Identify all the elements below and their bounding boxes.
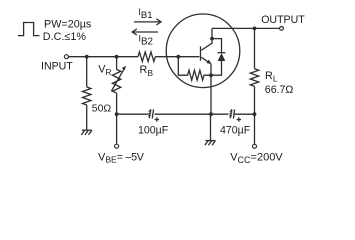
wire RL to rail [254, 86, 256, 114]
current arrow IB2 [132, 29, 158, 35]
node rail-RL junction [253, 112, 257, 116]
bottom rail wire [117, 113, 255, 115]
svg-text:RL: RL [265, 70, 278, 84]
svg-text:OUTPUT: OUTPUT [261, 14, 305, 26]
ground below 50ohm [81, 130, 92, 135]
svg-text:66.7Ω: 66.7Ω [265, 84, 294, 96]
transistor Q1 base bar [200, 46, 202, 60]
current arrow IB1 [134, 19, 161, 25]
collector lead [202, 28, 213, 50]
svg-text:470µF: 470µF [220, 125, 251, 137]
node emitter junction [209, 73, 213, 77]
node VR branch [115, 55, 119, 59]
node emitter-rail junction [209, 112, 213, 116]
node base junction [176, 55, 180, 59]
wire VR to bottom rail [116, 93, 118, 114]
node rail-VR junction [115, 112, 119, 116]
svg-text:RB: RB [140, 64, 154, 78]
transistor circle U1 [166, 14, 240, 88]
node RL-output junction [253, 27, 257, 31]
emitter wire down to rail [210, 75, 212, 114]
wire VCC stub [254, 114, 256, 144]
wire RB to base [155, 56, 199, 58]
wire VBE stub [116, 114, 118, 144]
internal base-emitter resistor [178, 57, 211, 80]
variable resistor VR [112, 70, 120, 94]
svg-text:IB1: IB1 [138, 7, 152, 21]
VCC terminal [253, 144, 257, 148]
wire down to 50ohm resistor [86, 57, 88, 87]
svg-text:100µF: 100µF [138, 124, 169, 136]
arrow of VR [112, 66, 126, 91]
wire input to RB [69, 56, 139, 58]
svg-text:VBE= –5V: VBE= –5V [98, 151, 145, 164]
wire emitter to ground [210, 114, 212, 140]
resistor RL [250, 69, 258, 87]
capacitor C2 470uF [229, 109, 241, 122]
pulse waveform symbol [18, 23, 40, 36]
svg-text:PW=20µs: PW=20µs [44, 18, 92, 30]
svg-text:50Ω: 50Ω [92, 104, 112, 115]
output terminal [280, 27, 284, 31]
node collector junction [210, 37, 214, 41]
node 50ohm branch [85, 55, 89, 59]
wire output junction to RL [254, 28, 256, 68]
wire down to VR [116, 57, 118, 70]
resistor RB [138, 52, 155, 62]
emitter lead with arrow [202, 57, 212, 75]
VBE terminal [115, 144, 119, 148]
svg-text:VCC=200V: VCC=200V [230, 151, 283, 165]
input terminal [64, 55, 68, 59]
ground below emitter [205, 141, 216, 146]
svg-text:INPUT: INPUT [41, 60, 73, 72]
resistor 50ohm [82, 87, 90, 105]
wire 50ohm to ground [86, 105, 88, 130]
svg-text:D.C.≤1%: D.C.≤1% [43, 31, 87, 43]
svg-text:VR: VR [98, 63, 111, 77]
capacitor C1 100uF [148, 109, 159, 122]
wire collector to output [212, 27, 280, 29]
damper diode D1 [212, 39, 225, 76]
svg-text:IB2: IB2 [139, 34, 154, 48]
